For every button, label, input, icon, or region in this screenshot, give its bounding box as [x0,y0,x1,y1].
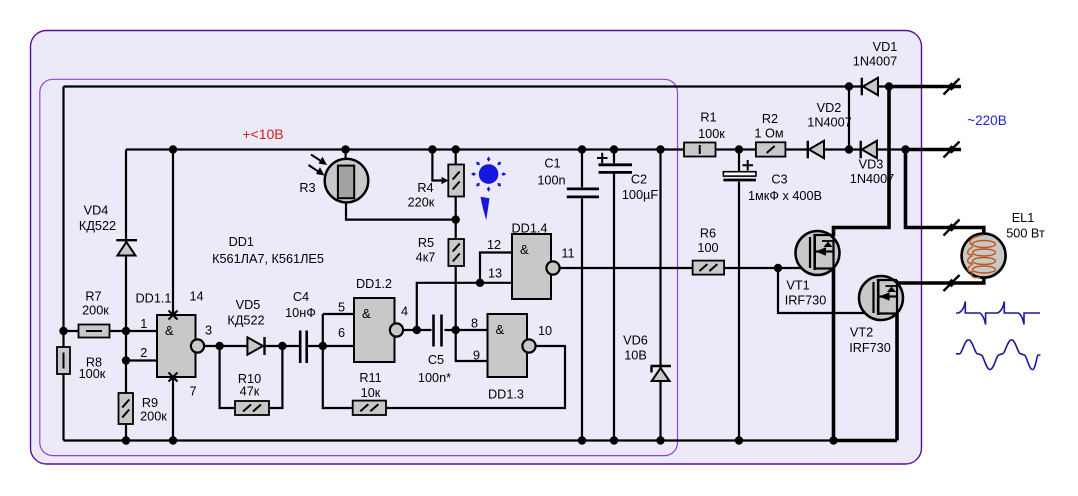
svg-text:DD1.4: DD1.4 [512,222,548,236]
svg-text:VD2: VD2 [817,101,842,115]
svg-text:100µF: 100µF [622,188,658,202]
svg-text:VD4: VD4 [84,204,109,218]
svg-text:VD6: VD6 [623,334,648,348]
svg-text:C5: C5 [428,353,444,367]
svg-text:14: 14 [189,290,203,304]
svg-text:1мкФ х 400В: 1мкФ х 400В [748,189,822,203]
svg-text:100n: 100n [537,174,565,188]
svg-text:VD5: VD5 [236,298,261,312]
svg-text:100n*: 100n* [418,371,451,385]
svg-text:8: 8 [471,317,478,331]
svg-text:200к: 200к [82,304,109,318]
svg-text:R1: R1 [700,111,716,125]
svg-text:R2: R2 [762,112,778,126]
svg-text:10В: 10В [624,349,647,363]
svg-text:C4: C4 [293,290,309,304]
svg-text:R11: R11 [359,371,381,385]
svg-text:EL1: EL1 [1012,211,1035,225]
svg-text:1N4007: 1N4007 [850,172,894,186]
svg-text:VD3: VD3 [859,158,884,172]
svg-text:13: 13 [488,267,502,281]
svg-text:100к: 100к [79,367,106,381]
svg-text:&: & [165,323,174,338]
svg-text:200к: 200к [140,410,167,424]
svg-text:4к7: 4к7 [416,251,436,265]
svg-text:1N4007: 1N4007 [807,116,851,130]
svg-text:R6: R6 [700,227,716,241]
svg-text:C1: C1 [544,157,560,171]
svg-text:VT2: VT2 [850,326,873,340]
svg-text:VT1: VT1 [786,279,809,293]
svg-text:КД522: КД522 [79,219,116,233]
svg-text:+<10В: +<10В [242,126,283,142]
svg-text:R9: R9 [142,396,158,410]
svg-text:R7: R7 [85,290,101,304]
svg-text:5: 5 [338,301,345,315]
svg-text:47к: 47к [240,385,260,399]
svg-text:DD1.2: DD1.2 [356,277,392,291]
svg-text:1: 1 [140,317,147,331]
svg-text:~220В: ~220В [967,113,1006,128]
svg-text:IRF730: IRF730 [849,341,891,355]
svg-text:&: & [496,322,505,337]
svg-text:C3: C3 [771,173,787,187]
svg-text:10нФ: 10нФ [285,306,316,320]
svg-text:DD1: DD1 [229,235,254,249]
svg-text:220к: 220к [408,196,435,210]
svg-text:9: 9 [473,349,480,363]
svg-text:10: 10 [538,324,552,338]
svg-text:VD1: VD1 [873,40,898,54]
svg-text:6: 6 [338,326,345,340]
svg-text:7: 7 [189,385,196,399]
svg-text:К561ЛА7, К561ЛЕ5: К561ЛА7, К561ЛЕ5 [212,252,324,266]
svg-text:DD1.3: DD1.3 [488,388,524,402]
svg-text:R3: R3 [299,181,315,195]
svg-text:C2: C2 [631,173,647,187]
svg-text:1 Ом: 1 Ом [754,127,783,141]
svg-text:500 Вт: 500 Вт [1006,227,1045,241]
svg-text:IRF730: IRF730 [785,294,827,308]
svg-text:2: 2 [140,346,147,360]
svg-text:11: 11 [561,247,574,261]
svg-text:12: 12 [487,238,501,252]
svg-text:1N4007: 1N4007 [853,55,897,69]
svg-text:100к: 100к [698,127,725,141]
svg-text:4: 4 [401,305,408,319]
svg-text:R4: R4 [417,181,433,195]
svg-text:3: 3 [205,324,212,338]
svg-text:10к: 10к [361,386,381,400]
svg-text:&: & [362,306,371,321]
svg-text:100: 100 [697,241,718,255]
svg-text:&: & [520,242,529,257]
svg-text:DD1.1: DD1.1 [136,292,172,306]
svg-text:R5: R5 [418,236,434,250]
svg-text:КД522: КД522 [227,314,264,328]
